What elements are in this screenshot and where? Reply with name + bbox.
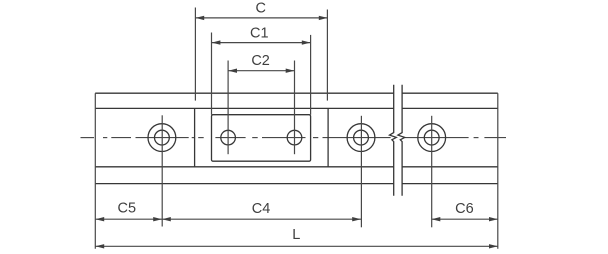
svg-text:C1: C1 xyxy=(250,25,269,41)
svg-text:L: L xyxy=(292,227,300,243)
svg-text:C6: C6 xyxy=(455,201,474,217)
svg-text:C: C xyxy=(256,1,266,17)
svg-text:C5: C5 xyxy=(118,201,137,217)
svg-text:C2: C2 xyxy=(251,53,270,69)
svg-text:C4: C4 xyxy=(252,201,271,217)
